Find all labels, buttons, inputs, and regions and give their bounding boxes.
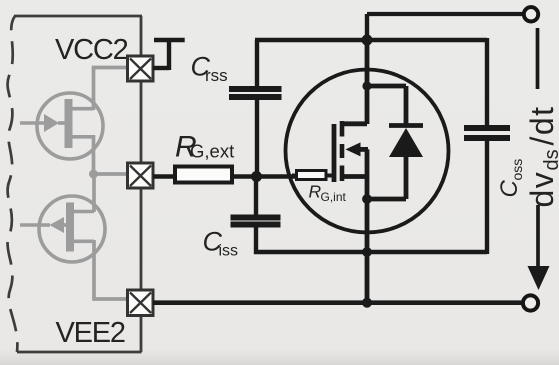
bottom rail	[153, 300, 521, 305]
dv/dt arrowhead	[528, 266, 550, 290]
junction dot drain rail	[362, 35, 373, 46]
body diode anode wire	[404, 156, 409, 199]
MOSFET channel segment middle	[340, 144, 345, 158]
svg-text:VEE2: VEE2	[56, 317, 125, 349]
terminal X-box VEE2	[128, 290, 154, 316]
dvds/dt label (rotated)	[524, 105, 559, 207]
MOSFET top bar (drain to diode)	[367, 84, 406, 89]
wire: gate terminal to R_G,ext	[153, 174, 176, 178]
MOSFET bottom bar (source to diode)	[367, 197, 406, 202]
junction dot bottom rail	[362, 298, 372, 308]
svg-text:VCC2: VCC2	[55, 34, 128, 66]
wire C_oss bottom to loop rail	[485, 140, 489, 254]
capacitor C_rss	[229, 89, 282, 97]
dv/dt upper line	[536, 28, 540, 89]
wire R_G,int lead	[292, 174, 297, 178]
wire drain rail up to top line	[365, 14, 369, 40]
drain top rail	[255, 38, 487, 42]
svg-text:rss: rss	[205, 66, 228, 85]
source terminal circle	[523, 295, 538, 310]
svg-text:ds: ds	[541, 149, 559, 170]
C_oss label (rotated)	[496, 159, 525, 198]
wire drain rail down into package	[365, 40, 370, 124]
body diode cathode bar	[389, 123, 423, 128]
drain terminal circle	[524, 7, 538, 21]
gray node dot	[89, 170, 98, 179]
Miller clamp icon	[153, 40, 185, 70]
body diode triangle	[389, 128, 423, 157]
MOSFET channel segment bottom	[340, 166, 345, 182]
right loop vertical to C_oss	[485, 38, 489, 126]
wire C_iss bottom to source loop rail	[254, 227, 258, 255]
top line to drain terminal	[367, 12, 523, 16]
capacitor C_rss wire down from drain rail	[255, 40, 259, 87]
svg-text:dv: dv	[524, 171, 559, 208]
wire R_G,int to gate bar	[326, 174, 336, 178]
wire: R_G,ext to gate node	[232, 174, 297, 178]
terminal X-box VCC2	[128, 56, 154, 81]
driver transistor Q2 (gray, bottom)	[20, 196, 105, 262]
junction dot source loop	[362, 247, 372, 257]
dv/dt arrow line	[536, 205, 540, 270]
resistor R_G,ext	[175, 167, 232, 183]
svg-text:/dt: /dt	[524, 105, 559, 145]
wire C_rss bottom to gate node	[255, 99, 259, 177]
MOSFET source lead	[344, 174, 367, 179]
MOSFET package circle	[286, 70, 449, 233]
capacitor C_iss	[231, 218, 281, 225]
driver block wavy left edge	[8, 16, 18, 352]
junction dot top bar	[362, 81, 371, 90]
source loop bottom rail	[254, 250, 487, 254]
capacitor C_oss	[464, 128, 510, 138]
resistor R_G,int	[297, 171, 327, 180]
gray wire: node to gate output terminal	[94, 172, 129, 176]
driver block right column wire	[140, 16, 143, 352]
gray wire: bottom driver FET drain up to node	[92, 174, 96, 212]
svg-text:C: C	[496, 180, 523, 198]
driver transistor Q1 (gray, top)	[20, 93, 103, 159]
gate node dot	[251, 171, 262, 182]
MOSFET Q gate bar	[332, 124, 337, 182]
svg-text:G,int: G,int	[321, 190, 347, 204]
MOSFET drain lead	[344, 121, 367, 126]
body diode cathode wire	[404, 86, 409, 126]
gray wire: top driver FET drain to VCC2 terminal	[94, 68, 129, 111]
driver block top border	[14, 15, 142, 18]
gray wire: bottom driver FET source to VEE2 terminal	[94, 240, 128, 299]
MOSFET source trunk down	[365, 149, 370, 302]
terminal X-box gate output	[128, 163, 154, 188]
driver block bottom border	[17, 351, 142, 354]
svg-text:oss: oss	[509, 159, 525, 181]
gray wire: top driver FET source down to node	[92, 135, 96, 174]
svg-text:iss: iss	[219, 243, 239, 260]
junction dot bottom bar	[362, 194, 372, 204]
MOSFET body arrow	[359, 147, 368, 152]
wire gate node down to C_iss	[254, 177, 258, 216]
svg-text:G,ext: G,ext	[190, 141, 234, 162]
MOSFET channel segment top	[340, 121, 345, 137]
